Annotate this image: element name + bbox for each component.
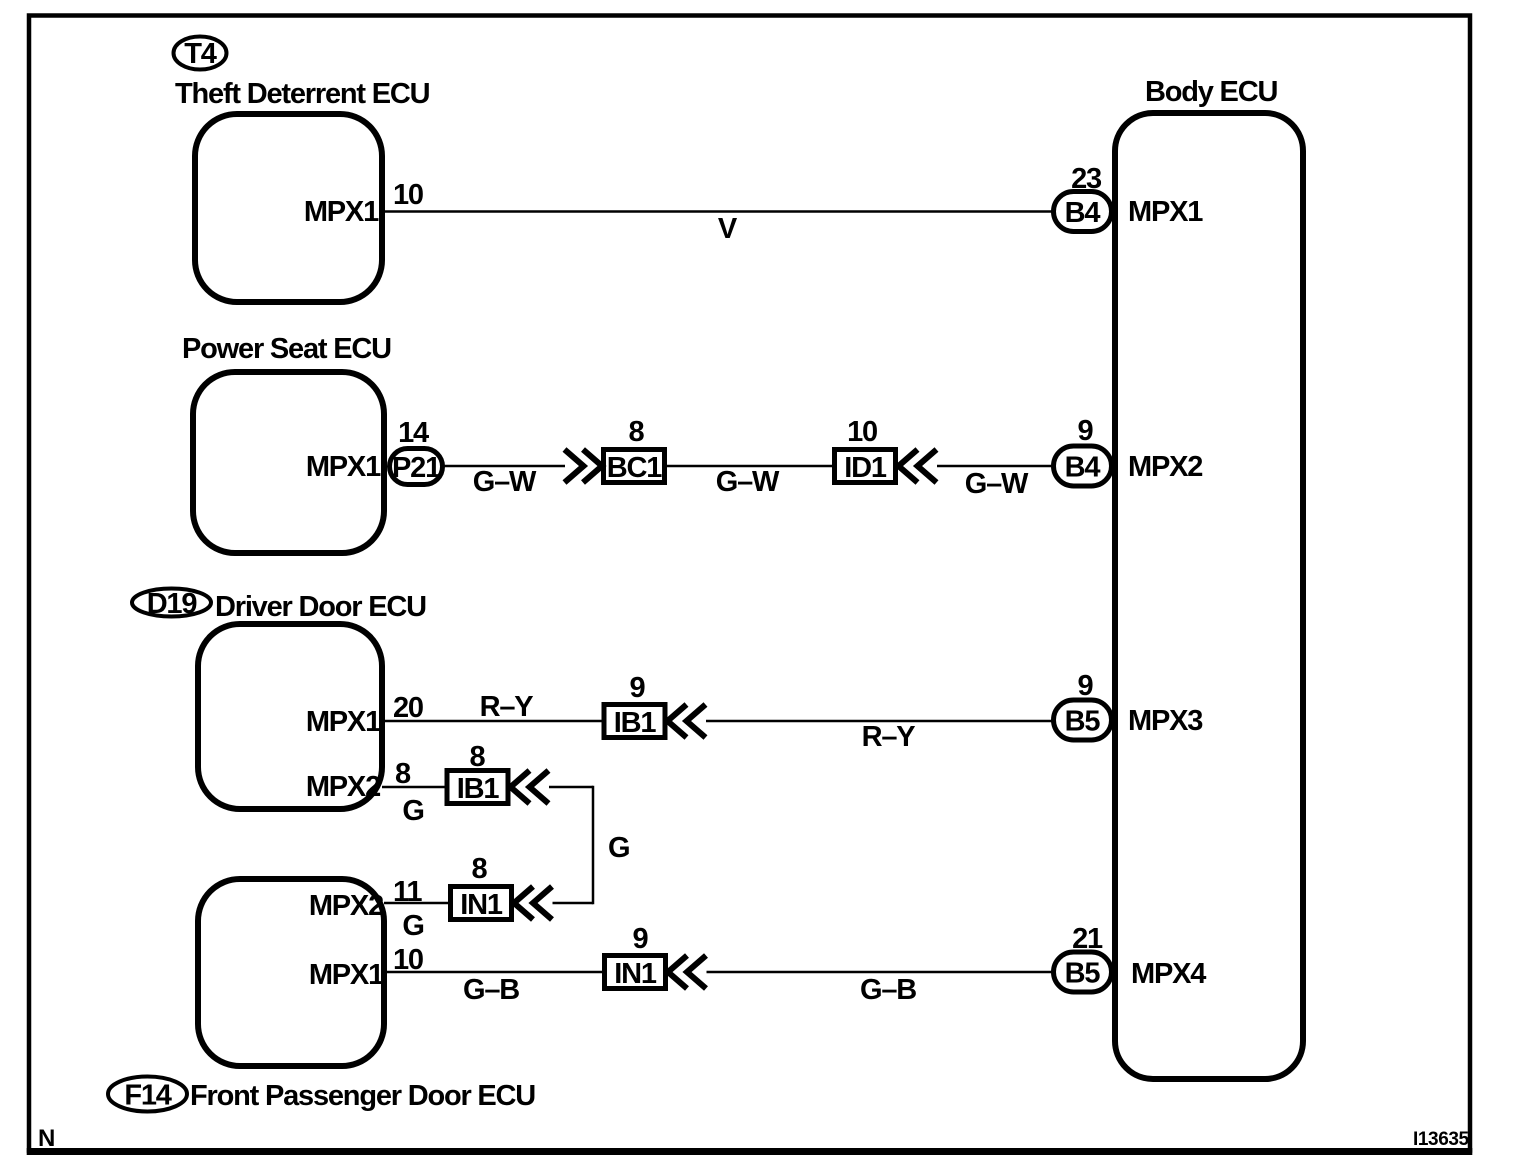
connector B4 pin 9 on Body ECU [1054, 446, 1112, 486]
svg-text:8: 8 [472, 853, 488, 885]
svg-text:9: 9 [1078, 415, 1094, 447]
svg-text:G–W: G–W [965, 468, 1029, 500]
svg-text:Power Seat ECU: Power Seat ECU [182, 333, 391, 365]
junction connector IN1 (row G) [451, 887, 512, 922]
svg-text:R–Y: R–Y [862, 721, 916, 753]
svg-text:8: 8 [629, 416, 645, 448]
svg-text:IB1: IB1 [457, 773, 500, 805]
svg-text:T4: T4 [184, 38, 217, 70]
wire R-Y from Driver Door ECU pin 20 to junction IB1 [382, 720, 604, 723]
svg-text:14: 14 [398, 417, 429, 449]
wire R-Y from IB1 arrows to Body ECU B5 pin 9 [706, 720, 1053, 723]
svg-text:MPX3: MPX3 [1128, 705, 1203, 737]
svg-text:9: 9 [1078, 670, 1094, 702]
svg-text:G: G [608, 832, 629, 864]
connector marker D19 [132, 588, 211, 620]
wire G-B from Front Passenger ECU pin 10 to junction IN1 [384, 971, 604, 974]
svg-text:IN1: IN1 [614, 958, 657, 990]
junction connector IN1 (row MPX4) [605, 956, 666, 991]
junction connector ID1 [835, 450, 896, 485]
svg-text:MPX2: MPX2 [306, 771, 380, 803]
svg-text:G–B: G–B [463, 974, 519, 1006]
wire G from Front Passenger ECU pin 11 to junction IN1 [384, 902, 450, 905]
wire G-W from P21 to junction BC1 [443, 465, 565, 468]
wire V from Theft Deterrent ECU pin 10 to Body ECU B4 pin 23 [385, 210, 1053, 213]
svg-text:G: G [402, 910, 423, 942]
svg-text:G–W: G–W [716, 466, 780, 498]
svg-text:P21: P21 [392, 452, 441, 484]
svg-text:B4: B4 [1065, 452, 1101, 484]
wire G from IN1 arrows to corner [553, 902, 594, 905]
svg-text:R–Y: R–Y [480, 691, 534, 723]
svg-text:Driver Door ECU: Driver Door ECU [215, 591, 426, 623]
svg-text:D19: D19 [147, 588, 198, 620]
svg-text:V: V [718, 213, 738, 245]
connector P21 pin 14 on Power Seat ECU [390, 449, 443, 485]
wire G from IB1 arrows to corner [549, 786, 593, 789]
svg-text:F14: F14 [124, 1080, 171, 1112]
connector B4 pin 23 on Body ECU [1054, 192, 1112, 232]
connector marker T4 [174, 37, 227, 71]
svg-text:Theft Deterrent ECU: Theft Deterrent ECU [175, 78, 430, 110]
connector B5 pin 9 on Body ECU [1054, 700, 1112, 740]
svg-text:G–B: G–B [860, 974, 916, 1006]
svg-text:Body ECU: Body ECU [1145, 76, 1277, 108]
svg-text:MPX1: MPX1 [306, 451, 381, 483]
svg-text:IB1: IB1 [614, 707, 657, 739]
svg-text:ID1: ID1 [844, 452, 887, 484]
wire G-B from IN1 arrows to Body ECU B5 pin 21 [707, 971, 1054, 974]
ECU box Front Passenger Door ECU [198, 879, 384, 1066]
svg-text:MPX1: MPX1 [304, 196, 379, 228]
svg-text:N: N [38, 1125, 55, 1152]
svg-text:MPX1: MPX1 [306, 706, 381, 738]
ECU box Theft Deterrent ECU [195, 114, 382, 302]
wire G-W from BC1 to ID1 [666, 465, 834, 468]
svg-text:10: 10 [393, 179, 423, 211]
svg-text:MPX2: MPX2 [309, 890, 383, 922]
svg-text:MPX4: MPX4 [1131, 958, 1206, 990]
junction arrows out of IB1 (pointing left) [668, 705, 706, 738]
svg-text:G–W: G–W [473, 466, 537, 498]
wire G from Driver Door ECU pin 8 to junction IB1 [382, 786, 447, 789]
svg-text:9: 9 [633, 923, 649, 955]
svg-text:MPX1: MPX1 [309, 959, 384, 991]
connector marker F14 [108, 1077, 187, 1112]
junction connector IB1 (row MPX3) [604, 705, 665, 740]
junction arrows out of IB1 lower (pointing left) [511, 771, 549, 804]
junction connector IB1 (row G) [447, 771, 508, 806]
svg-text:BC1: BC1 [607, 452, 662, 484]
junction arrows out of IN1 lower (pointing left) [668, 956, 706, 989]
svg-text:MPX1: MPX1 [1128, 196, 1203, 228]
junction connector BC1 [604, 450, 665, 485]
svg-text:20: 20 [393, 692, 423, 724]
svg-text:Front Passenger Door ECU: Front Passenger Door ECU [190, 1080, 535, 1112]
svg-text:I13635: I13635 [1413, 1129, 1470, 1150]
wire G vertical segment [592, 786, 595, 905]
junction arrows into BC1 (pointing right) [565, 450, 603, 483]
svg-text:9: 9 [630, 672, 646, 704]
svg-text:IN1: IN1 [460, 889, 503, 921]
svg-text:MPX2: MPX2 [1128, 451, 1202, 483]
svg-text:B5: B5 [1065, 958, 1101, 990]
junction arrows out of IN1 upper (pointing left) [514, 887, 552, 920]
connector B5 pin 21 on Body ECU [1054, 952, 1112, 992]
ECU box Body ECU [1115, 113, 1303, 1079]
svg-text:8: 8 [395, 758, 411, 790]
ECU box Power Seat ECU [193, 372, 384, 553]
junction arrows out of ID1 (pointing left) [899, 450, 937, 483]
svg-text:B4: B4 [1065, 197, 1101, 229]
svg-text:B5: B5 [1065, 706, 1101, 738]
ECU box Driver Door ECU [198, 624, 382, 809]
svg-text:10: 10 [847, 416, 877, 448]
wire G-W from ID1 arrows to Body ECU B4 pin 9 [937, 465, 1053, 468]
svg-text:G: G [402, 795, 423, 827]
